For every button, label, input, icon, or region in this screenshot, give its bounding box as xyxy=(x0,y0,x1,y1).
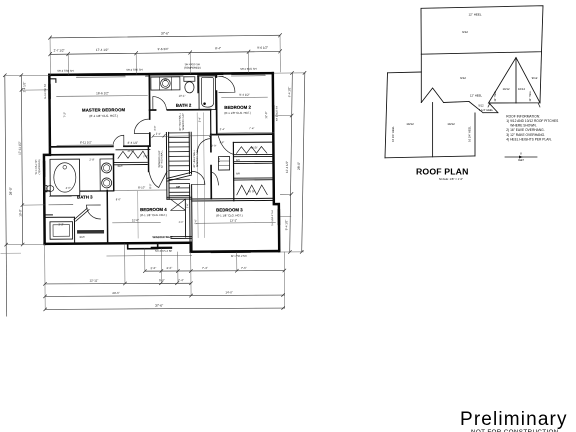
svg-text:2'-0": 2'-0" xyxy=(179,221,184,224)
svg-text:12" HEEL: 12" HEEL xyxy=(494,90,497,102)
svg-text:B/R: B/R xyxy=(236,159,240,162)
bath3 bench dark band xyxy=(77,230,104,234)
svg-text:10/12: 10/12 xyxy=(447,122,455,126)
svg-text:10'-1": 10'-1" xyxy=(179,94,186,98)
roof: middle eave line xyxy=(444,102,469,103)
svg-text:(TEMPERED): (TEMPERED) xyxy=(38,159,41,174)
interior wall: bedroom2 west xyxy=(215,76,217,135)
roof: connector piece xyxy=(469,102,498,113)
svg-text:B&R: B&R xyxy=(118,165,123,168)
window bar left wall upper xyxy=(48,84,51,99)
door arc: bath3 entry xyxy=(86,205,100,219)
closet rod zigzag 2 xyxy=(237,185,268,195)
roof: gable triangle xyxy=(489,58,541,104)
svg-text:8'-4": 8'-4" xyxy=(215,46,221,50)
dim: bottom row C xyxy=(45,295,284,297)
svg-text:2'-6": 2'-6" xyxy=(150,266,156,270)
door arc: master closet door in south wall xyxy=(113,135,124,146)
svg-text:17'-11 1/2": 17'-11 1/2" xyxy=(18,141,22,155)
svg-text:13'-1": 13'-1" xyxy=(230,218,237,222)
svg-text:SH 2 C/5-2 SH: SH 2 C/5-2 SH xyxy=(155,249,172,253)
fixture: bath3 tub xyxy=(50,159,80,196)
svg-text:28'-0": 28'-0" xyxy=(297,162,301,170)
svg-text:2'-4": 2'-4" xyxy=(156,132,161,136)
svg-text:10/12: 10/12 xyxy=(518,87,525,91)
stair treads xyxy=(169,133,190,196)
svg-text:2'-4": 2'-4" xyxy=(178,278,184,282)
roof: lower-left section bottom edge xyxy=(385,156,475,158)
dim: far-left bottom tie xyxy=(1,252,21,254)
dim: bottom row D overall xyxy=(45,308,284,310)
door arc: bath2 xyxy=(153,96,167,110)
svg-text:SH 5/50-2 SH: SH 5/50-2 SH xyxy=(271,210,274,226)
dim: left outer vertical 28'-0" xyxy=(5,75,7,316)
roof: middle band left edge xyxy=(420,54,422,102)
svg-text:B&R: B&R xyxy=(80,236,85,239)
window bar top wall: bedroom2 window xyxy=(231,72,265,75)
window bar top wall: bath2 window xyxy=(197,72,223,75)
svg-text:8'-11 1/2": 8'-11 1/2" xyxy=(80,140,92,144)
svg-text:SH 2 50/2 SH: SH 2 50/2 SH xyxy=(276,106,279,122)
fixture: bath3 sink 2 xyxy=(102,178,112,188)
closet rod zigzag 1 xyxy=(236,146,267,153)
svg-text:BEDROOM 2: BEDROOM 2 xyxy=(224,105,251,110)
stair bottom double wall xyxy=(167,197,192,199)
window bar left wall lower xyxy=(43,161,46,177)
svg-text:SH 4 7/50 SH: SH 4 7/50 SH xyxy=(44,84,47,100)
svg-text:9/12: 9/12 xyxy=(462,30,468,34)
dim: right vertical inner xyxy=(288,73,293,252)
dim: window seat line xyxy=(107,254,192,257)
svg-text:2'-4 1/2": 2'-4 1/2" xyxy=(22,82,26,93)
fixture: bath2 vanity xyxy=(151,77,180,90)
svg-text:SH 4 7/50 SH: SH 4 7/50 SH xyxy=(126,68,143,72)
dim: top extension lines xyxy=(50,35,280,75)
svg-text:2'-8": 2'-8" xyxy=(219,141,224,144)
svg-text:2'-8": 2'-8" xyxy=(89,158,94,162)
window bar top wall: master window 1 xyxy=(76,73,125,76)
svg-text:10/12: 10/12 xyxy=(406,122,414,126)
svg-text:7'-6": 7'-6" xyxy=(241,266,247,270)
window sill lines under top-wall windows xyxy=(76,76,265,77)
svg-text:10'-0": 10'-0" xyxy=(18,209,22,216)
interior wall: closet left vertical xyxy=(232,142,234,200)
svg-text:12" HEEL: 12" HEEL xyxy=(529,90,532,102)
svg-text:BEDROOM 4: BEDROOM 4 xyxy=(140,207,167,212)
door arc: bedroom2 entry xyxy=(219,76,235,92)
svg-text:UP: UP xyxy=(176,185,180,189)
interior wall: stairwell right double xyxy=(189,132,192,252)
svg-text:12'-0": 12'-0" xyxy=(264,112,268,119)
dim: bottom extension lines xyxy=(45,243,285,310)
dim: right vertical outer 28'-0" xyxy=(300,73,306,252)
fixture: bath2 toilet xyxy=(184,77,195,82)
svg-text:1) 9/12 AND 10/12 ROOF PITCHES: 1) 9/12 AND 10/12 ROOF PITCHES xyxy=(506,119,559,123)
door leaf diagonal bath3 xyxy=(74,208,89,221)
bath2 tub drain dot xyxy=(203,102,206,105)
svg-text:9/12: 9/12 xyxy=(460,76,466,80)
roof: top rectangle xyxy=(421,6,543,55)
interior wall: bath2 east / tub wall xyxy=(197,76,199,93)
roof: small eave ticks under triangle xyxy=(488,103,540,107)
roof: right edge of middle band xyxy=(540,52,542,103)
interior dim: bedroom3 13'-1" xyxy=(196,222,275,225)
svg-text:4 1/4" HEEL: 4 1/4" HEEL xyxy=(479,108,494,112)
svg-text:8: 8 xyxy=(520,152,522,156)
window bar right wall lower xyxy=(278,209,281,225)
door arc: bedroom3 entry xyxy=(192,171,205,184)
roof: lower-left right edge xyxy=(474,113,476,156)
svg-text:BATH 3: BATH 3 xyxy=(77,195,93,200)
svg-text:(8'-1 1/8" CLG. HGT.): (8'-1 1/8" CLG. HGT.) xyxy=(89,114,118,118)
svg-text:7'-4": 7'-4" xyxy=(249,126,254,130)
svg-text:4) HEEL HEIGHTS PER PLAN.: 4) HEEL HEIGHTS PER PLAN. xyxy=(506,137,551,141)
svg-text:6'-4 1/2": 6'-4 1/2" xyxy=(287,87,291,98)
svg-text:WHERE SHOWN.: WHERE SHOWN. xyxy=(510,124,536,128)
interior wall: master closet east xyxy=(147,146,149,171)
dim: right horizontal ties xyxy=(274,73,307,252)
svg-text:BEDROOM 3: BEDROOM 3 xyxy=(216,207,243,212)
fixture: bath3 toilet xyxy=(44,185,47,192)
svg-text:9/12: 9/12 xyxy=(532,76,538,80)
linen door arc xyxy=(212,172,219,185)
interior wall: bath3 mid horizontal xyxy=(44,190,114,191)
svg-text:12'-11": 12'-11" xyxy=(90,278,99,282)
floor plan group xyxy=(0,30,308,316)
roof: gable ridge vertical xyxy=(515,58,517,104)
fixture: bath3 sink 1 xyxy=(102,163,112,173)
stair break diagonal xyxy=(167,172,192,181)
under-stair bottom double wall xyxy=(171,237,192,239)
svg-text:9'-6 3/4": 9'-6 3/4" xyxy=(158,47,169,51)
svg-text:9/12: 9/12 xyxy=(478,104,484,108)
svg-text:12'-4 1/2": 12'-4 1/2" xyxy=(285,161,289,173)
svg-text:SCALE: 1/8" = 1'-0": SCALE: 1/8" = 1'-0" xyxy=(439,177,463,181)
window bar window seat xyxy=(151,247,173,249)
door arc: hall to bedroom2 wic xyxy=(197,139,211,153)
dim: top row 2 segments xyxy=(50,51,280,54)
interior wall: bath3/bed4 divider vertical xyxy=(106,190,108,243)
fixture: bath3 shower xyxy=(50,222,73,240)
svg-text:12" HEEL: 12" HEEL xyxy=(470,94,483,98)
dim: top row overall 37'-6" xyxy=(50,35,280,38)
outer wall: right with jog xyxy=(273,73,279,251)
shelf band 1 double xyxy=(234,161,274,163)
window bar right wall upper xyxy=(272,105,275,122)
svg-text:9'-4 1/2": 9'-4 1/2" xyxy=(239,93,250,97)
interior wall: closet1 top xyxy=(233,141,273,143)
window seat bump xyxy=(128,244,158,249)
interior wall: bedroom3 north double xyxy=(192,198,274,201)
svg-text:8'-0": 8'-0" xyxy=(148,183,152,188)
top-left corner lip xyxy=(51,79,56,83)
svg-text:2'-4": 2'-4" xyxy=(220,127,225,131)
interior wall: bath3 lower divider xyxy=(44,215,74,244)
svg-text:BATH 2: BATH 2 xyxy=(176,103,192,108)
interior dim: bedroom4 12'-0" xyxy=(112,221,160,223)
svg-text:2'-6": 2'-6" xyxy=(186,203,189,208)
svg-text:12" HEEL: 12" HEEL xyxy=(468,13,481,17)
interior wall: master closet bottom xyxy=(114,162,148,164)
svg-text:16 1/4" HEEL: 16 1/4" HEEL xyxy=(391,126,395,142)
svg-text:(8'-1 1/8" CLG. HGT.): (8'-1 1/8" CLG. HGT.) xyxy=(224,111,251,115)
svg-text:2) 16" EAVE OVERHANG.: 2) 16" EAVE OVERHANG. xyxy=(506,128,544,132)
svg-text:37'-6": 37'-6" xyxy=(155,304,163,308)
roof: lower-left divider xyxy=(432,103,434,157)
svg-text:5'-0": 5'-0" xyxy=(159,278,165,282)
vestibule door arc top xyxy=(218,136,233,154)
interior wall: bath3 north xyxy=(44,153,113,156)
interior dim: bedroom4 8'-10" xyxy=(115,189,166,191)
fixture: bath3 vanity counter xyxy=(100,159,114,191)
svg-text:SH 4 7/50 SH: SH 4 7/50 SH xyxy=(57,69,74,73)
svg-text:17'-4 1/2": 17'-4 1/2" xyxy=(96,48,109,52)
outer wall: bottom left xyxy=(45,243,191,244)
svg-text:W/WOOD CAP: W/WOOD CAP xyxy=(158,150,161,167)
interior wall: master south xyxy=(50,145,150,148)
interior wall: master east / hall west xyxy=(148,76,151,146)
window bar top wall: master window 2 xyxy=(145,73,183,76)
outer wall: left xyxy=(43,75,50,244)
shelf band 2 double xyxy=(234,178,274,180)
svg-text:2'-7 1/2": 2'-7 1/2" xyxy=(54,48,65,52)
dim: bottom row A xyxy=(145,270,284,272)
svg-text:16'-6 1/2": 16'-6 1/2" xyxy=(96,91,109,95)
outer wall: bottom right xyxy=(191,242,280,252)
window bar bottom wall (bedroom3) xyxy=(211,250,251,253)
fixture: bath2 sink circle xyxy=(161,79,171,89)
svg-text:FEET: FEET xyxy=(518,160,524,162)
roof: eave valley V xyxy=(421,88,443,103)
svg-text:14'-0": 14'-0" xyxy=(225,290,232,294)
hall dim line xyxy=(153,135,211,138)
interior wall: bath3 east xyxy=(112,154,114,190)
svg-text:Preliminary: Preliminary xyxy=(460,409,568,430)
svg-text:65 SF: 65 SF xyxy=(251,146,258,150)
preliminary stamp xyxy=(460,409,568,432)
interior dim: bedroom2 9'-4 1/2" xyxy=(222,96,268,98)
door arc: master from hall xyxy=(134,119,148,133)
svg-text:SH 7/50-2 SH: SH 7/50-2 SH xyxy=(231,254,247,258)
svg-text:7'-2": 7'-2" xyxy=(63,112,67,118)
svg-text:2'-6": 2'-6" xyxy=(166,266,172,270)
svg-text:8'-4 1/2": 8'-4 1/2" xyxy=(128,141,139,145)
svg-text:2'-0": 2'-0" xyxy=(217,157,221,162)
svg-text:W/WOOD CAP: W/WOOD CAP xyxy=(196,150,199,167)
svg-text:8'-0": 8'-0" xyxy=(116,197,121,201)
dim verticals right of stairs xyxy=(197,113,204,238)
svg-text:10/12: 10/12 xyxy=(503,87,510,91)
svg-text:ROOF INFORMATION:: ROOF INFORMATION: xyxy=(506,114,540,118)
roof scale bar xyxy=(505,156,537,158)
door arc: bedroom4 entry xyxy=(149,171,167,187)
svg-text:WINDOW SEAT: WINDOW SEAT xyxy=(152,235,173,239)
interior dim vertical bedroom4 xyxy=(137,191,139,238)
linen closet rect xyxy=(218,156,229,170)
svg-text:2'-0": 2'-0" xyxy=(143,155,148,158)
fixture: bath2 tub xyxy=(199,76,216,110)
interior wall: bedroom2 south xyxy=(211,133,273,135)
svg-text:20'-6": 20'-6" xyxy=(112,291,119,295)
svg-text:4'-0": 4'-0" xyxy=(66,186,71,190)
interior wall: closet1 bottom double xyxy=(233,154,273,156)
svg-text:9'-6 1/2": 9'-6 1/2" xyxy=(257,46,268,50)
svg-text:B/R: B/R xyxy=(236,172,240,175)
svg-text:65 SF: 65 SF xyxy=(248,189,255,193)
interior wall: stairwell left double xyxy=(166,132,169,199)
svg-text:9'-4 1/2": 9'-4 1/2" xyxy=(284,220,288,231)
svg-text:ROOF PLAN: ROOF PLAN xyxy=(416,167,469,177)
interior dim: master 16'-6 1/2" xyxy=(56,95,147,98)
svg-text:3'-4": 3'-4" xyxy=(197,117,201,122)
svg-text:(8'-1 1/8" CLG. HGT.): (8'-1 1/8" CLG. HGT.) xyxy=(140,213,167,217)
svg-text:16 1/4" HEEL: 16 1/4" HEEL xyxy=(468,126,472,142)
svg-text:5'-0": 5'-0" xyxy=(193,219,197,224)
svg-text:MASTER BEDROOM: MASTER BEDROOM xyxy=(82,107,126,112)
roof plan group xyxy=(385,6,559,181)
svg-text:W/WOOD CAP: W/WOOD CAP xyxy=(182,113,185,130)
svg-text:(TEMPERED): (TEMPERED) xyxy=(184,66,201,70)
svg-text:8'-10": 8'-10" xyxy=(138,185,145,189)
svg-text:40 SF: 40 SF xyxy=(127,149,134,153)
under-stair closet right wall xyxy=(184,199,186,237)
roof: lower-left section top edge xyxy=(388,71,422,74)
svg-text:3'-0": 3'-0" xyxy=(153,125,157,130)
master closet zigzag xyxy=(118,151,147,158)
under-stair closet X hatch xyxy=(171,199,186,210)
dim: left horizontal ties xyxy=(5,75,51,245)
dim: left inner vertical xyxy=(21,75,22,244)
svg-text:12'-0": 12'-0" xyxy=(132,218,139,222)
roof: lower-left section left edge xyxy=(385,73,388,158)
svg-text:2'-2": 2'-2" xyxy=(58,222,63,226)
svg-text:3) 12" RAKE OVERHANG.: 3) 12" RAKE OVERHANG. xyxy=(506,133,545,137)
outer wall: top xyxy=(49,73,272,75)
interior wall: hall east upper xyxy=(210,135,213,199)
svg-text:SH 4X50 SH: SH 4X50 SH xyxy=(185,62,200,66)
bath3 shelf lines xyxy=(49,196,73,205)
dim: bottom row B xyxy=(45,283,191,285)
svg-text:28'-0": 28'-0" xyxy=(9,187,13,195)
svg-text:7'-4": 7'-4" xyxy=(202,266,208,270)
svg-text:SH 2 50/2 SH: SH 2 50/2 SH xyxy=(240,67,257,71)
interior wall: bath2 south xyxy=(150,109,211,111)
interior wall: master closet top xyxy=(116,149,150,151)
svg-text:(8'-1 1/8" CLG. HGT.): (8'-1 1/8" CLG. HGT.) xyxy=(216,213,243,217)
svg-text:37'-6": 37'-6" xyxy=(161,31,169,35)
svg-text:2'-0": 2'-0" xyxy=(211,144,216,148)
